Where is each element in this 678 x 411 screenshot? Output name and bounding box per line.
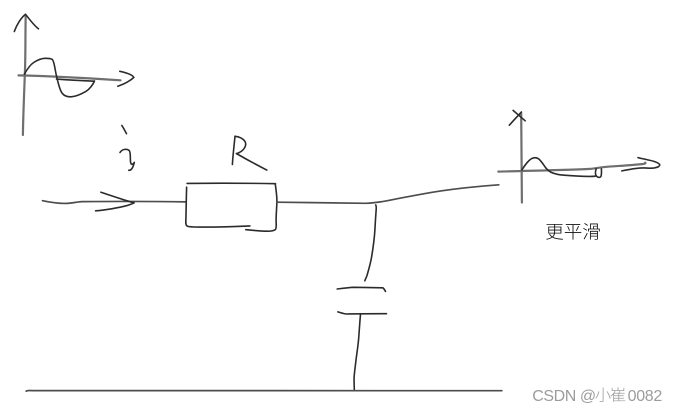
capacitor C1: bottom plate <box>338 312 387 314</box>
input waveform graph: horizontal axis <box>19 75 121 80</box>
current label i <box>122 126 127 134</box>
output waveform graph: horizontal axis merging into wave tail <box>498 163 645 172</box>
resistor label R <box>232 136 235 164</box>
watermark: CSDN @小崔0082 <box>532 387 662 405</box>
ground rail <box>26 389 502 392</box>
output waveform graph: axis arrowhead (crossed) <box>513 110 525 120</box>
input waveform graph: horizontal axis arrowhead <box>118 71 134 86</box>
text label 更平滑 <box>546 223 599 240</box>
svg-text:0082: 0082 <box>628 388 663 405</box>
input waveform graph: vertical axis arrowhead <box>14 14 38 31</box>
input waveform: sine scribble <box>24 58 94 97</box>
node: junction to capacitor branch <box>365 205 376 281</box>
wire: capacitor to ground <box>354 314 360 389</box>
wire: resistor to junction, rising to output graph <box>277 185 499 204</box>
wire: input lead <box>43 201 186 204</box>
arrow on input wire <box>101 192 134 203</box>
input waveform: loop closing stroke <box>57 79 95 81</box>
resistor R1: body box <box>187 182 275 184</box>
svg-text:CSDN @: CSDN @ <box>532 388 595 405</box>
output waveform: smoother sine scribble <box>522 158 595 177</box>
output waveform: tail pocket loop <box>595 169 601 178</box>
input waveform graph: vertical axis <box>23 16 26 136</box>
output waveform: arrow flourish <box>622 158 660 171</box>
output waveform graph: vertical axis <box>520 113 523 203</box>
capacitor C1: top plate <box>337 287 385 291</box>
